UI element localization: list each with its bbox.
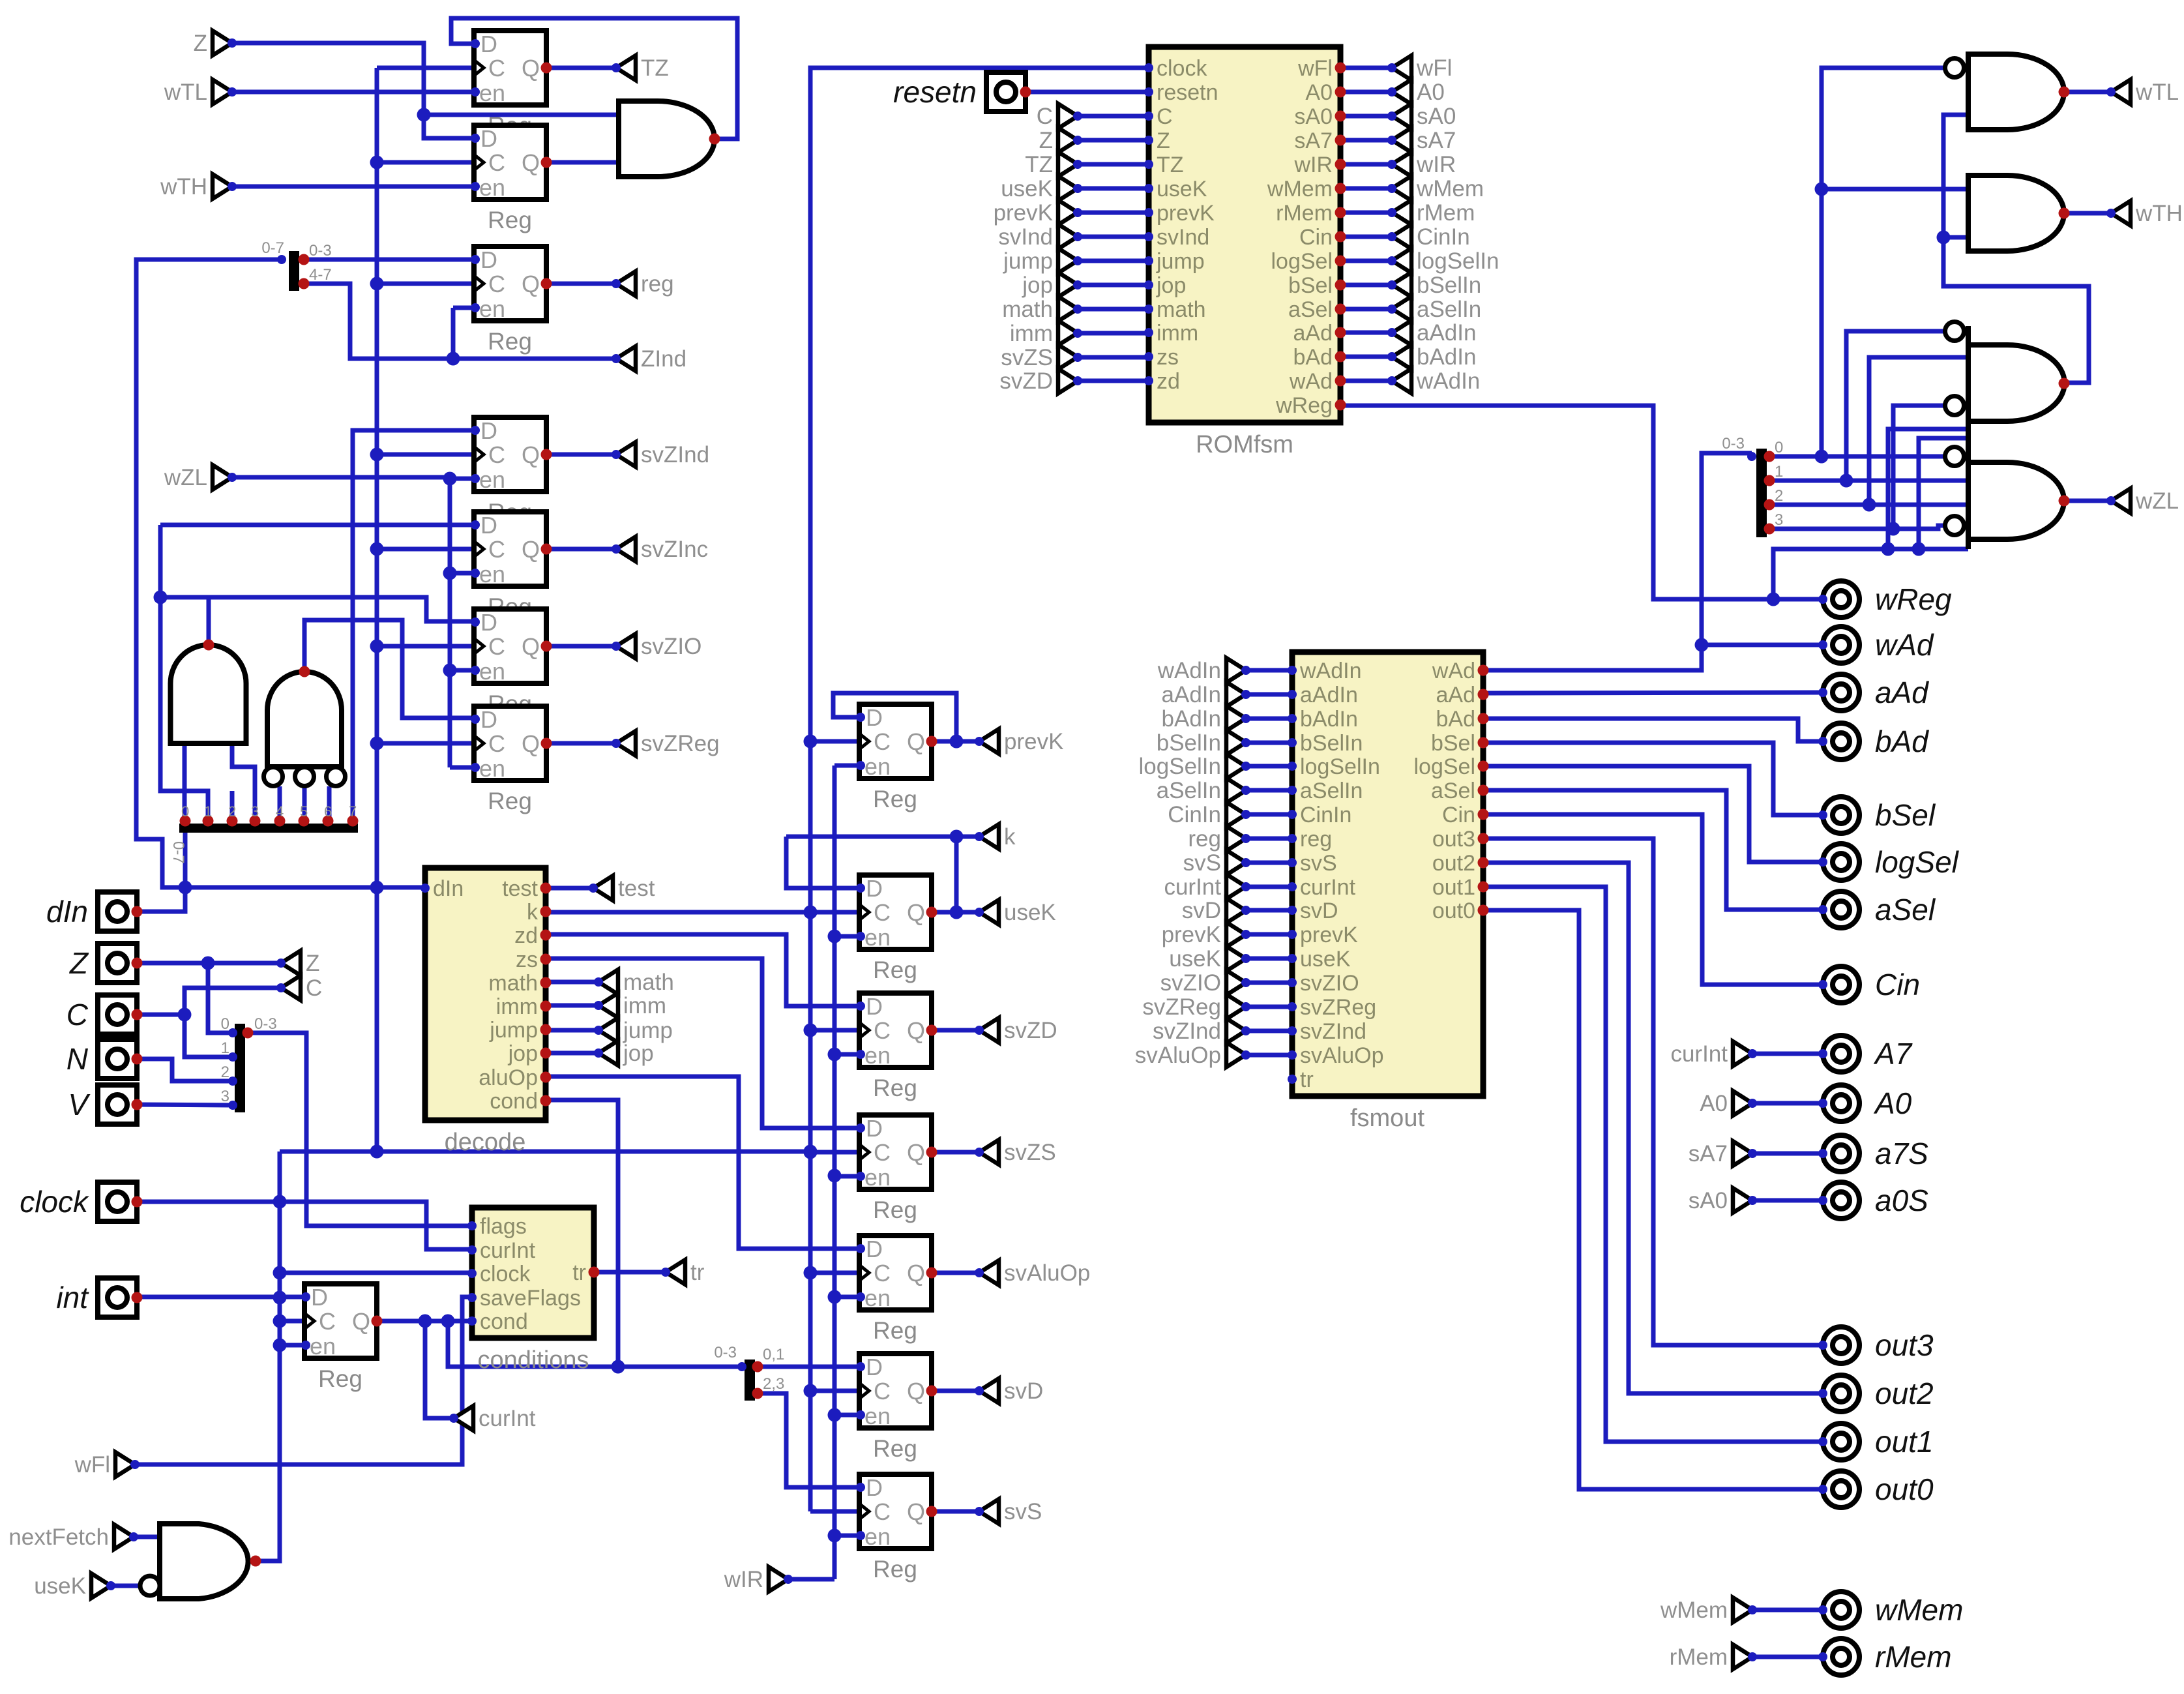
wire fsmout.bAd to pad: [1483, 719, 1823, 741]
svg-text:aAd: aAd: [1875, 676, 1929, 709]
output pad bSel: [1818, 797, 1936, 833]
tunnel C flag out: [276, 975, 322, 1001]
wire k riser to useK.Q: [954, 837, 959, 912]
wire tunnel to pad: [1752, 1101, 1823, 1106]
wire ROMfsm.sA7 out: [1340, 138, 1392, 143]
svg-text:jop: jop: [623, 1041, 654, 1066]
wire Z to flags bit0: [208, 963, 233, 1033]
wire C bus to svAluOp.C: [810, 1271, 859, 1275]
svg-text:zd: zd: [1157, 369, 1180, 394]
wire tunnel to pad: [1752, 1152, 1823, 1156]
tunnel jump to ROMfsm: [1003, 248, 1082, 274]
svg-text:en: en: [864, 1164, 891, 1191]
wire C bus to svZS.C: [810, 1150, 859, 1155]
wire fsmout.aAd to pad: [1483, 692, 1823, 693]
svg-text:A7: A7: [1873, 1037, 1913, 1071]
svg-text:curInt: curInt: [1670, 1041, 1728, 1067]
tunnel svZIO to fsmout: [1160, 970, 1250, 996]
svg-text:D: D: [866, 1354, 883, 1380]
wire x578 to R4.C: [377, 453, 474, 457]
wire ROMfsm.rMem out: [1340, 211, 1392, 215]
wire gWZL out: [2064, 499, 2111, 503]
svg-text:curInt: curInt: [1300, 875, 1356, 900]
svg-text:sA7: sA7: [1294, 128, 1333, 153]
svg-text:wAd: wAd: [1289, 369, 1333, 394]
tunnel svZInd to fsmout: [1153, 1018, 1250, 1044]
register svAluOp Reg: [856, 1236, 937, 1344]
svg-text:wIR: wIR: [1416, 152, 1456, 177]
output pad wMem: [1818, 1592, 1963, 1628]
wire x246 to R5.D: [160, 523, 474, 528]
wire gateB bubbles to bits 4,5,6: [280, 786, 329, 821]
wire bit2 row: [1769, 498, 1968, 512]
svg-text:Q: Q: [522, 55, 540, 82]
svg-text:rMem: rMem: [1670, 1644, 1728, 1670]
svg-text:svZD: svZD: [999, 368, 1053, 394]
wire splitter 0,1 to svD.D: [758, 1365, 859, 1369]
svg-text:Cin: Cin: [1299, 225, 1333, 250]
wire C pad to junction: [137, 1008, 192, 1022]
wire R4.Q to svZInd: [546, 453, 616, 457]
svg-text:svZReg: svZReg: [1142, 994, 1221, 1020]
svg-text:bAdIn: bAdIn: [1417, 344, 1476, 370]
wire ROMfsm.Z: [1078, 138, 1149, 143]
svg-text:en: en: [479, 561, 505, 587]
wire ROMfsm.wFl out: [1340, 66, 1392, 70]
wire ROMfsm.C: [1078, 114, 1149, 119]
svg-text:svS: svS: [1183, 850, 1221, 876]
wire flags bus to conditions: [248, 1033, 472, 1226]
tunnel svAluOp to fsmout: [1135, 1043, 1250, 1068]
wire wAd to pad: [1702, 643, 1823, 647]
wire x578 to R3.C: [377, 282, 474, 286]
svg-text:wMem: wMem: [1660, 1597, 1728, 1623]
wire wTL to R1.en: [232, 90, 474, 95]
svg-text:imm: imm: [496, 994, 538, 1019]
svg-text:math: math: [488, 971, 538, 996]
wire fsmout.svZInd: [1246, 1029, 1292, 1033]
wire ROMfsm.svZD: [1078, 379, 1149, 383]
svg-text:C: C: [874, 1017, 891, 1044]
svg-text:Q: Q: [522, 271, 540, 297]
wire riser x2896 to gWZL top: [1888, 429, 1968, 549]
tunnel curInt to fsmout: [1164, 874, 1250, 900]
wire en bus to useK.en: [834, 934, 859, 939]
wire en bus x690: [443, 472, 457, 768]
svg-text:out3: out3: [1875, 1328, 1934, 1362]
wire NAND out to x429: [256, 1345, 280, 1561]
svg-text:aSel: aSel: [1431, 779, 1475, 803]
svg-text:0-7: 0-7: [170, 841, 187, 864]
wire ROMfsm.bAdIn out: [1340, 355, 1392, 359]
tunnel bSelIn from ROMfsm: [1387, 273, 1481, 298]
NAND gate gFetch: [140, 1524, 261, 1599]
wire y2096 to splitter svD: [742, 1365, 745, 1369]
wire x578 to R7.C: [377, 741, 474, 746]
output pad rMem: [1818, 1639, 1952, 1675]
output pad out0: [1818, 1471, 1934, 1508]
wire ROMfsm.CinIn out: [1340, 235, 1392, 239]
svg-text:Reg: Reg: [873, 786, 917, 812]
wire ROMfsm.logSelIn out: [1340, 259, 1392, 263]
wire fsmout.wAd right: [1483, 453, 1752, 670]
svg-text:prevK: prevK: [1162, 922, 1221, 947]
wire C bus to svS.C: [810, 1509, 859, 1514]
tunnel prevK to fsmout: [1162, 922, 1250, 947]
svg-text:C: C: [874, 1139, 891, 1166]
svg-text:D: D: [480, 609, 497, 636]
svg-text:svInd: svInd: [1157, 225, 1209, 250]
svg-text:jop: jop: [1156, 273, 1186, 298]
svg-text:Q: Q: [907, 899, 925, 926]
tunnel svD to fsmout: [1182, 898, 1250, 923]
output pad bAd: [1818, 723, 1929, 760]
wire en bus to R6.en: [450, 668, 474, 673]
svg-text:imm: imm: [1157, 321, 1198, 346]
wire ROMfsm.prevK: [1078, 211, 1149, 215]
tunnel aAdIn to fsmout: [1162, 682, 1250, 707]
wire fsmout.svS: [1246, 861, 1292, 865]
svg-text:wFl: wFl: [74, 1452, 110, 1478]
svg-text:bSel: bSel: [1288, 273, 1333, 298]
svg-text:logSel: logSel: [1271, 249, 1333, 274]
wire fsmout.svZIO: [1246, 981, 1292, 985]
splitter dIn 0-7 to 0-3/4-7: [261, 239, 331, 291]
wire ROMfsm.wAdIn out: [1340, 379, 1392, 383]
svg-text:en: en: [864, 1523, 891, 1550]
wire gateA.inL to bit0: [183, 743, 187, 821]
tunnel wTH out: [2106, 201, 2183, 226]
svg-text:svD: svD: [1182, 898, 1221, 923]
svg-text:0-3: 0-3: [1722, 435, 1745, 453]
svg-text:wFl: wFl: [1297, 56, 1333, 81]
svg-text:svAluOp: svAluOp: [1135, 1043, 1221, 1068]
svg-text:TZ: TZ: [1157, 153, 1184, 177]
svg-text:en: en: [864, 753, 891, 780]
svg-text:bAdIn: bAdIn: [1162, 706, 1221, 732]
tunnel rMem to pad: [1670, 1644, 1757, 1670]
tunnel Z to ROMfsm: [1039, 128, 1082, 153]
wire decode.k to useK.C: [546, 906, 859, 919]
tunnel CinIn to fsmout: [1168, 802, 1250, 827]
tunnel TZ: [612, 55, 669, 81]
tunnel reg: [612, 271, 674, 297]
svg-text:Q: Q: [352, 1308, 370, 1335]
svg-text:logSel: logSel: [1875, 845, 1960, 879]
wire ROMfsm.imm: [1078, 331, 1149, 336]
svg-text:svInd: svInd: [998, 224, 1053, 250]
wire fsmout.Cin to pad: [1483, 814, 1823, 985]
wire C bus to svZD.C: [810, 1028, 859, 1033]
svg-text:wMem: wMem: [1875, 1593, 1963, 1627]
tunnel sA7 from ROMfsm: [1387, 128, 1456, 153]
svg-text:dIn: dIn: [46, 895, 88, 929]
tunnel aSelIn to fsmout: [1157, 778, 1250, 803]
tunnel useK out: [975, 900, 1056, 925]
wire Z to R2.D: [232, 43, 474, 138]
svg-text:sA7: sA7: [1417, 128, 1456, 153]
svg-text:jop: jop: [1022, 273, 1053, 298]
svg-text:svZIO: svZIO: [1300, 971, 1359, 996]
output pad A7: [1818, 1035, 1913, 1072]
svg-text:prevK: prevK: [1300, 923, 1358, 947]
svg-text:a0S: a0S: [1875, 1183, 1928, 1217]
svg-text:wAdIn: wAdIn: [1299, 659, 1362, 683]
wire y916 to R6.D jog: [208, 597, 474, 621]
tunnel aAdIn from ROMfsm: [1387, 320, 1476, 346]
tunnel jop to ROMfsm: [1022, 273, 1082, 298]
svg-text:en: en: [479, 174, 505, 201]
tunnel math to ROMfsm: [1002, 297, 1082, 322]
wire fsmout.curInt: [1246, 885, 1292, 889]
wire fsmout.useK: [1246, 957, 1292, 961]
wire useK.Q to tunnel: [932, 906, 979, 919]
svg-text:en: en: [864, 1042, 891, 1069]
wire fsmout.logSel to pad: [1483, 766, 1823, 862]
wire int pad to intReg.D: [137, 1295, 304, 1300]
wire svS.Q to tunnel: [932, 1509, 979, 1514]
wire fsmout.out3 to pad: [1483, 839, 1823, 1345]
wire splitter0-3 to R3.D: [304, 258, 474, 262]
svg-text:D: D: [480, 31, 497, 57]
wire tunnel to pad: [1752, 1608, 1823, 1612]
svg-text:en: en: [479, 755, 505, 782]
wire wReg riser to gate row: [1773, 542, 1968, 600]
svg-text:C: C: [1037, 104, 1053, 129]
svg-text:useK: useK: [34, 1573, 86, 1599]
wire fsmout.svAluOp: [1246, 1053, 1292, 1058]
wire R5.Q to svZInc: [546, 547, 616, 552]
svg-text:0: 0: [1775, 439, 1783, 456]
svg-text:en: en: [479, 80, 505, 106]
svg-text:C: C: [488, 149, 505, 176]
tunnel TZ to ROMfsm: [1025, 152, 1082, 177]
wire wTH to R2.en: [232, 185, 474, 189]
tunnel curInt out: [449, 1406, 536, 1431]
AND gate gWTL: [1945, 54, 2070, 130]
svg-text:A0: A0: [1417, 80, 1445, 105]
svg-text:out0: out0: [1432, 899, 1475, 923]
tunnel Z (input): [194, 31, 237, 56]
wire R3.Q to reg: [546, 282, 616, 286]
wire fsmout.svD: [1246, 908, 1292, 913]
svg-text:1: 1: [204, 803, 212, 820]
svg-text:wTH: wTH: [160, 174, 207, 200]
register R7 (Reg): [471, 706, 552, 814]
wire ROMfsm.aSelIn out: [1340, 307, 1392, 312]
wire fsmout.aAdIn: [1246, 692, 1292, 697]
tunnel logSelIn from ROMfsm: [1387, 248, 1499, 274]
tunnel sA7 to a7S: [1689, 1141, 1757, 1166]
svg-text:logSelIn: logSelIn: [1139, 754, 1221, 779]
block fsmout: [1288, 652, 1489, 1132]
svg-text:D: D: [866, 1236, 883, 1262]
svg-text:C: C: [874, 1260, 891, 1286]
tunnel wIR (input): [724, 1567, 793, 1592]
AND gate gB (vertical, inverted inputs): [264, 666, 346, 786]
svg-text:en: en: [864, 1285, 891, 1311]
wire clock along y1766: [280, 1150, 810, 1154]
svg-text:out1: out1: [1432, 875, 1475, 900]
svg-text:Q: Q: [522, 441, 540, 468]
svg-text:resetn: resetn: [1157, 80, 1218, 105]
output pad Cin: [1818, 966, 1920, 1003]
wire x578 to R5.C: [377, 547, 474, 552]
wire x429 to intReg.en: [280, 1343, 304, 1348]
tunnel bSelIn to fsmout: [1157, 730, 1250, 756]
svg-text:wZL: wZL: [164, 465, 207, 490]
wire R2.Q to gTZ.in2: [546, 160, 619, 165]
tunnel sA0 to a0S: [1689, 1188, 1757, 1213]
svg-text:math: math: [1002, 297, 1053, 322]
svg-text:aAdIn: aAdIn: [1162, 682, 1221, 707]
wire Q branch to curInt tunnel: [425, 1321, 454, 1418]
svg-text:int: int: [56, 1281, 89, 1315]
wire decode.jop: [546, 1051, 598, 1056]
svg-text:aSelIn: aSelIn: [1300, 779, 1363, 803]
svg-text:C: C: [488, 441, 505, 468]
svg-text:curInt: curInt: [1164, 874, 1221, 900]
tunnel jump: [594, 1018, 673, 1043]
output pad aAd: [1818, 674, 1929, 711]
register R5 (Reg): [471, 512, 552, 620]
block decode: [421, 868, 552, 1156]
wire C bus x1243: [804, 68, 818, 1511]
svg-text:0-3: 0-3: [309, 242, 332, 260]
tunnel svZD: [975, 1018, 1057, 1043]
svg-text:k: k: [1004, 824, 1016, 850]
svg-text:Z: Z: [306, 951, 319, 976]
splitter dIn bus to bits 0-7: [170, 803, 359, 864]
wire svZS.Q to tunnel: [932, 1150, 979, 1155]
wire gTZ.in1 from Z line: [417, 108, 619, 122]
svg-text:D: D: [480, 246, 497, 273]
register svZS Reg: [856, 1115, 937, 1223]
register R2 (Reg): [471, 125, 552, 233]
svg-text:C: C: [874, 899, 891, 926]
wire R3.en feed: [447, 308, 475, 366]
wire splitter4-7 to ZInd: [304, 284, 616, 359]
svg-text:wZL: wZL: [2135, 488, 2179, 514]
svg-text:bAdIn: bAdIn: [1300, 707, 1358, 732]
wire x578 to R6.C: [377, 644, 474, 649]
svg-text:Reg: Reg: [873, 1075, 917, 1101]
svg-text:Q: Q: [522, 536, 540, 563]
tunnel sA0 from ROMfsm: [1387, 104, 1456, 129]
svg-text:logSelIn: logSelIn: [1300, 754, 1380, 779]
tunnel logSelIn to fsmout: [1139, 754, 1250, 779]
wire fsmout.logSelIn: [1246, 764, 1292, 769]
register prevK Reg: [856, 704, 937, 812]
wire R6.Q to svZIO: [546, 644, 616, 649]
wire dIn bus to decode: [185, 881, 425, 895]
AND gate gWZL: [1945, 424, 2070, 549]
wire cond line down to y2096: [448, 1321, 742, 1374]
svg-text:Q: Q: [907, 1378, 925, 1404]
wire bit2 riser x2867: [1869, 357, 1968, 505]
wire fsmout.out2 to pad: [1483, 863, 1823, 1393]
svg-text:2: 2: [228, 803, 236, 820]
tunnel jop: [594, 1041, 654, 1066]
AND gate gA (vertical): [171, 640, 246, 744]
svg-text:out0: out0: [1875, 1472, 1934, 1506]
block conditions: [467, 1208, 600, 1374]
tunnel Z flag out: [276, 951, 319, 976]
svg-text:D: D: [480, 125, 497, 152]
wire clock up x1243 to ROMfsm: [810, 68, 1149, 1152]
svg-text:zd: zd: [514, 923, 538, 948]
svg-text:wTL: wTL: [164, 80, 207, 105]
tunnel svS to fsmout: [1183, 850, 1250, 876]
tunnel prevK: [975, 729, 1063, 754]
svg-text:aSel: aSel: [1288, 297, 1333, 322]
svg-text:svZInd: svZInd: [1300, 1019, 1366, 1044]
AND gate g3: [1945, 322, 2070, 439]
svg-text:out1: out1: [1875, 1425, 1934, 1459]
wire dIn bus up-left: [136, 260, 280, 887]
svg-text:en: en: [479, 295, 505, 322]
svg-text:Z: Z: [1157, 128, 1170, 153]
wire dIn pad to bus: [137, 881, 192, 912]
svg-text:wIR: wIR: [724, 1567, 763, 1592]
svg-text:wAdIn: wAdIn: [1157, 658, 1221, 683]
svg-text:aSelIn: aSelIn: [1417, 297, 1481, 322]
svg-text:svD: svD: [1004, 1378, 1043, 1404]
wire bit1 to x246 riser: [160, 525, 208, 821]
svg-text:math: math: [623, 970, 674, 995]
svg-text:curInt: curInt: [480, 1238, 536, 1263]
wire x2981 to gWTH.in2: [1943, 235, 1968, 240]
wire fsmout.out1 to pad: [1483, 887, 1823, 1442]
wire svAluOp.Q to tunnel: [932, 1271, 979, 1275]
wire clock riser x429: [273, 1152, 287, 1561]
svg-text:C: C: [488, 271, 505, 297]
wire decode.imm: [546, 1003, 598, 1008]
svg-text:Q: Q: [907, 1139, 925, 1166]
svg-text:out2: out2: [1875, 1376, 1934, 1410]
svg-text:wReg: wReg: [1275, 393, 1333, 418]
svg-text:tr: tr: [1300, 1067, 1314, 1092]
svg-text:ZInd: ZInd: [641, 346, 686, 372]
svg-text:D: D: [866, 1474, 883, 1501]
input pad C: [66, 995, 143, 1034]
wire gWTH out: [2064, 211, 2111, 216]
svg-text:wTL: wTL: [2135, 80, 2179, 105]
svg-text:imm: imm: [623, 993, 666, 1018]
svg-text:4: 4: [276, 803, 284, 820]
wire x2794 to gWTH.in1: [1822, 187, 1968, 192]
svg-text:3: 3: [221, 1088, 229, 1105]
svg-text:svZD: svZD: [1004, 1018, 1057, 1043]
svg-text:test: test: [618, 876, 655, 901]
wire ROMfsm.jump: [1078, 259, 1149, 263]
tunnel rMem from ROMfsm: [1387, 200, 1475, 226]
svg-text:C: C: [1157, 104, 1173, 129]
svg-text:svS: svS: [1300, 851, 1337, 876]
svg-text:prevK: prevK: [994, 200, 1053, 226]
register R6 (Reg): [471, 609, 552, 717]
svg-text:Q: Q: [907, 1017, 925, 1044]
svg-text:prevK: prevK: [1004, 729, 1063, 754]
wire g3 out loop: [1937, 115, 2089, 383]
svg-text:aSel: aSel: [1875, 893, 1936, 927]
svg-text:D: D: [480, 706, 497, 733]
svg-text:en: en: [479, 658, 505, 685]
wire fsmout.bSelIn: [1246, 741, 1292, 745]
svg-text:C: C: [319, 1308, 336, 1335]
svg-text:1: 1: [221, 1039, 229, 1057]
svg-text:4-7: 4-7: [309, 266, 332, 284]
